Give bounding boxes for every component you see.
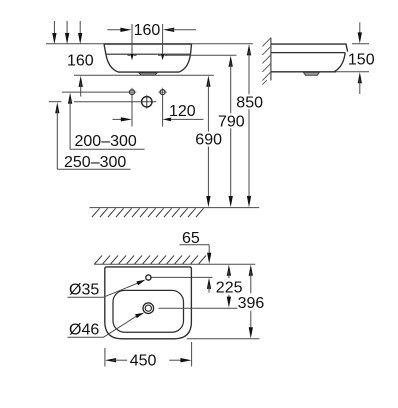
svg-text:160: 160: [67, 53, 94, 70]
svg-text:850: 850: [236, 94, 263, 111]
svg-text:396: 396: [238, 295, 265, 312]
svg-text:150: 150: [348, 51, 375, 68]
svg-text:160: 160: [134, 22, 161, 39]
svg-text:Ø46: Ø46: [69, 322, 99, 339]
svg-text:Ø35: Ø35: [69, 282, 99, 299]
svg-text:690: 690: [195, 132, 222, 149]
svg-text:450: 450: [130, 353, 157, 370]
svg-text:250–300: 250–300: [64, 154, 126, 171]
svg-text:200–300: 200–300: [75, 133, 137, 150]
svg-text:120: 120: [169, 103, 196, 120]
svg-text:790: 790: [218, 113, 245, 130]
